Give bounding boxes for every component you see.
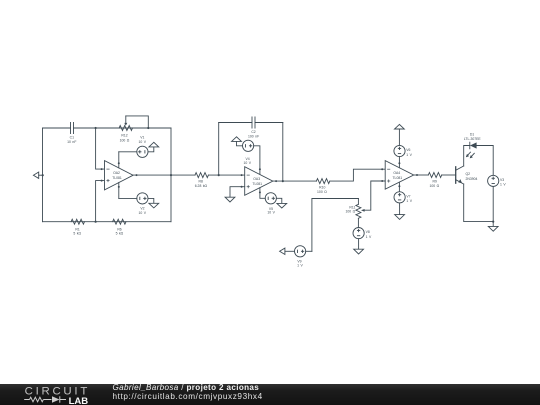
- wire OA3 output to R10: [273, 180, 317, 182]
- wire top feedback (C1 row): [43, 127, 172, 129]
- wire V+ pin to V1: [119, 151, 137, 153]
- OA3 V- power pin wire to V5: [260, 188, 265, 199]
- wire R8 to OA3 inverting input: [208, 174, 244, 176]
- voltage source V3 1V: [488, 175, 499, 186]
- wire V8 to ground: [358, 239, 360, 250]
- junction dot emitter/V3 ground node: [492, 221, 494, 223]
- wire OA3 +in to ground: [230, 187, 245, 198]
- wire V2 to VEE arrow: [148, 198, 154, 203]
- V1 value label: [139, 136, 147, 144]
- R11 value label: [346, 205, 356, 213]
- wire V9 rail to R11 top: [312, 199, 359, 252]
- junction dot R12 loop: [147, 127, 149, 129]
- pin dot OA2 output: [136, 174, 138, 176]
- pin dot OA4 output: [416, 174, 418, 176]
- voltage source V5 10V: [265, 193, 276, 204]
- ground (V7): [395, 215, 405, 220]
- wire V3 to ground rail: [492, 187, 494, 222]
- power down arrow (V5 rail): [277, 203, 287, 208]
- resistor R1: [71, 219, 84, 224]
- wire stage2 feedback top (C2 row): [219, 122, 283, 124]
- wire feedback right rail: [170, 128, 172, 222]
- power up arrow (V4 rail): [232, 137, 242, 142]
- resistor R9: [428, 173, 441, 178]
- OA4 designator label: [392, 171, 402, 180]
- R12 value label: [120, 134, 130, 143]
- op-amp OA3 TL081: [245, 167, 273, 196]
- footer bar: [0, 384, 540, 405]
- pin dot OA2 +in: [101, 180, 103, 182]
- V7 value label: [406, 194, 412, 203]
- resistor R6: [113, 219, 126, 224]
- power down arrow (V2 rail): [149, 203, 159, 208]
- pin dot OA3 output: [275, 180, 277, 182]
- wire left rail vertical: [42, 128, 44, 222]
- ground (output stage): [488, 226, 498, 231]
- power up arrow (V6 rail): [395, 124, 405, 129]
- wire V4 to OA3 V+ pin: [254, 146, 260, 174]
- OA4 V- pin wire to V7: [398, 182, 400, 191]
- ground (OA3 +in): [225, 197, 235, 202]
- V6 value label: [406, 148, 412, 157]
- terminal arrow (V9 input): [280, 248, 295, 254]
- wire OA4 +in to R11 wiper: [364, 181, 385, 210]
- resistor R11 (potentiometer): [356, 199, 361, 228]
- power up arrow (V1 rail): [149, 142, 159, 147]
- Q2 designator label: [466, 172, 478, 181]
- OA3 designator label: [252, 177, 262, 186]
- junction dot OA3 output / feedback: [282, 180, 284, 182]
- V9 value label: [297, 259, 303, 267]
- svg-text:LAB: LAB: [69, 396, 89, 405]
- R1 value label: [73, 227, 81, 235]
- wire VCC arrow to V6: [398, 129, 400, 145]
- wire V1 to VCC arrow: [148, 147, 154, 152]
- input terminal (left arrow): [33, 172, 42, 178]
- node dot at input / left rail: [42, 174, 44, 176]
- capacitor C2: [252, 117, 255, 128]
- pin dot OA3 V+: [259, 168, 261, 170]
- wire stage2 feedback left rail: [218, 123, 220, 176]
- logo schematic: wire resistor diode: [24, 396, 66, 402]
- V8 value label: [366, 230, 372, 239]
- voltage source V7 1V: [394, 192, 405, 203]
- wire V7 to ground: [399, 203, 401, 215]
- pin dot OA4 -in: [381, 168, 383, 170]
- C1 value label: [67, 135, 76, 144]
- LED D1 LTL-307EE: [466, 142, 477, 158]
- wire to OA2 inverting input: [96, 128, 105, 169]
- V2 value label: [139, 207, 147, 215]
- op-amp OA2 TL081: [105, 161, 134, 190]
- wire OA4 output to R9: [414, 174, 429, 176]
- V3 value label: [500, 178, 506, 186]
- ground (V8): [354, 249, 364, 254]
- capacitor C1: [71, 123, 74, 134]
- resistor R10: [316, 179, 329, 184]
- pin dot OA2 -in: [101, 168, 103, 170]
- R6 value label: [116, 227, 124, 235]
- wire bottom row (R1 R6): [43, 221, 172, 223]
- voltage source V9 1V: [295, 246, 306, 257]
- wire Q2 emitter to ground rail: [464, 184, 494, 222]
- junction node dot (C1 / R12 / op-amp inverting input): [95, 127, 97, 129]
- R9 value label: [429, 179, 439, 188]
- V4 value label: [244, 157, 252, 165]
- wire Q2 collector to D1: [464, 146, 470, 167]
- OA2 V+ power pin: [118, 152, 120, 168]
- pin dot OA4 V-: [398, 185, 400, 187]
- pin dot OA4 V+: [398, 162, 400, 164]
- D1 designator label: [464, 133, 482, 141]
- resistor R8: [195, 173, 208, 178]
- R12 wiper arrow and loop wire: [124, 116, 148, 128]
- wire stage2 feedback right rail: [282, 123, 284, 182]
- wire OA2 non-inverting input to bottom row: [96, 181, 105, 222]
- voltage source V1 10V: [137, 146, 148, 157]
- junction dot bottom (non-inverting divider): [95, 221, 97, 223]
- voltage source V4 10V: [243, 140, 254, 151]
- OA2 designator label: [112, 171, 122, 180]
- R11 wiper arrowhead: [361, 209, 365, 212]
- R10 value label: [317, 186, 327, 195]
- wire OA2 output to R8: [133, 174, 195, 176]
- pin dot OA3 -in: [241, 174, 243, 176]
- wire D1 to V3: [477, 146, 494, 176]
- voltage source V2 10V: [137, 193, 148, 204]
- voltage source V8 1V: [353, 228, 364, 239]
- pin dot OA4 +in: [381, 180, 383, 182]
- wire VCC arrow to V4: [237, 141, 243, 145]
- wire R9 to Q2 base: [442, 174, 456, 176]
- wire V6 to OA4 V+ pin: [398, 157, 400, 168]
- wire V- pin to V2: [119, 197, 137, 199]
- resistor R12 (potentiometer): [119, 126, 132, 131]
- junction dot output / feedback: [170, 174, 172, 176]
- wire V5 to VEE arrow: [276, 198, 281, 203]
- junction dot stage2 feedback left: [218, 174, 220, 176]
- pin dot OA3 V-: [259, 191, 261, 193]
- transistor Q2 2N3904: [456, 166, 464, 184]
- wire node to ground: [492, 222, 494, 227]
- pin dot OA3 +in: [241, 186, 243, 188]
- wire R10 to OA4 inverting input: [330, 169, 385, 181]
- op-amp OA4 TL081: [385, 161, 414, 190]
- OA2 V- power pin: [118, 182, 120, 198]
- voltage source V6 1V: [394, 145, 405, 156]
- V5 value label: [267, 207, 275, 215]
- R8 value label: [195, 180, 208, 189]
- C2 value label: [248, 130, 259, 138]
- wire V9 to rail: [306, 250, 312, 252]
